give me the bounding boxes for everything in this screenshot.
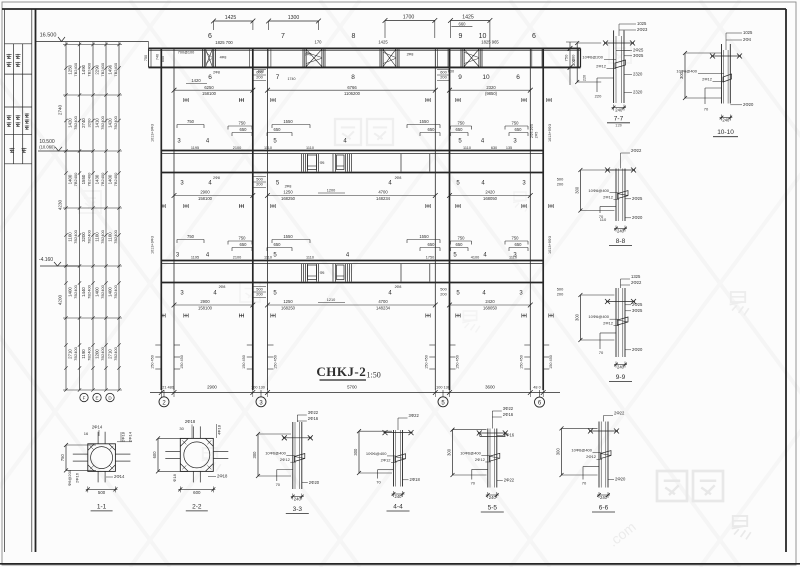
svg-text:168250: 168250 xyxy=(281,196,296,201)
svg-text:750: 750 xyxy=(60,454,65,462)
svg-text:4Φ8: 4Φ8 xyxy=(220,56,227,60)
svg-text:2Φ12: 2Φ12 xyxy=(475,457,486,462)
level mark -4.160 xyxy=(39,257,79,266)
svg-text:10Φ6@200: 10Φ6@200 xyxy=(582,55,603,60)
svg-text:7B2400: 7B2400 xyxy=(87,346,92,361)
svg-text:1400: 1400 xyxy=(95,287,100,297)
svg-text:48 0: 48 0 xyxy=(533,386,540,390)
svg-text:2Φ22: 2Φ22 xyxy=(631,148,642,153)
svg-text:1013+9Φ3: 1013+9Φ3 xyxy=(151,124,155,142)
svg-text:2Φ12: 2Φ12 xyxy=(702,77,713,82)
svg-text:2Φ20: 2Φ20 xyxy=(309,480,320,485)
svg-text:650: 650 xyxy=(515,127,523,132)
svg-text:158100: 158100 xyxy=(198,305,213,310)
section detail 9-9 xyxy=(574,274,643,382)
svg-text:1425: 1425 xyxy=(225,15,237,21)
svg-text:4100: 4100 xyxy=(471,256,479,260)
svg-text:148234: 148234 xyxy=(376,305,391,310)
svg-text:650: 650 xyxy=(428,242,436,247)
roof beam right overhang dimension xyxy=(563,42,586,85)
svg-text:1825 965: 1825 965 xyxy=(481,40,499,45)
svg-text:4230: 4230 xyxy=(58,199,63,210)
svg-text:150 450: 150 450 xyxy=(242,355,246,369)
section detail 5-5 xyxy=(447,406,515,512)
svg-text:168050: 168050 xyxy=(483,196,498,201)
svg-text:1400: 1400 xyxy=(68,174,73,184)
svg-text:2Φ18: 2Φ18 xyxy=(217,474,228,479)
svg-text:1025: 1025 xyxy=(637,21,647,26)
svg-text:10Φ6@400: 10Φ6@400 xyxy=(588,314,609,319)
svg-text:4200: 4200 xyxy=(58,294,63,305)
svg-text:9: 9 xyxy=(458,74,462,81)
svg-text:150 450: 150 450 xyxy=(549,355,553,369)
section detail 4-4 xyxy=(353,413,420,511)
svg-text:1195: 1195 xyxy=(191,146,199,150)
svg-text:5-5: 5-5 xyxy=(488,505,498,512)
svg-text:1:20: 1:20 xyxy=(615,124,621,128)
svg-text:7B2400: 7B2400 xyxy=(113,172,118,187)
grid bubble 5 xyxy=(438,390,448,407)
svg-text:1210: 1210 xyxy=(327,298,335,302)
top sub dimension texts xyxy=(215,40,499,46)
story3 column steel label C3 xyxy=(440,287,447,297)
svg-text:3Φ22: 3Φ22 xyxy=(409,413,420,418)
svg-text:7-7: 7-7 xyxy=(614,116,624,123)
svg-text:240: 240 xyxy=(489,495,497,500)
svg-text:750: 750 xyxy=(144,55,148,61)
svg-text:150 450: 150 450 xyxy=(424,355,428,369)
svg-text:200: 200 xyxy=(440,292,447,297)
svg-text:650: 650 xyxy=(456,242,464,247)
top grid numbers 6 7 8 9 10 6 xyxy=(208,33,536,48)
svg-text:2Φ23: 2Φ23 xyxy=(637,27,648,32)
svg-text:7B2400: 7B2400 xyxy=(100,346,105,361)
svg-text:100 130: 100 130 xyxy=(436,386,450,390)
svg-text:240: 240 xyxy=(395,494,403,499)
story1 stirrup dimensions xyxy=(177,119,528,136)
svg-text:10Φ6@400: 10Φ6@400 xyxy=(571,448,592,453)
story3 column base ties xyxy=(150,345,553,369)
svg-text:1420: 1420 xyxy=(108,118,113,128)
signature strip text 建筑 结构 给排水 xyxy=(7,113,30,129)
section detail 7-7 xyxy=(571,21,648,128)
svg-text:7B2400: 7B2400 xyxy=(87,172,92,187)
svg-text:7B2400: 7B2400 xyxy=(87,284,92,299)
svg-text:110: 110 xyxy=(600,217,607,222)
svg-text:6: 6 xyxy=(532,33,536,40)
roof beam splice detail b xyxy=(303,49,325,66)
svg-text:1110: 1110 xyxy=(463,146,471,150)
svg-text:150 450: 150 450 xyxy=(456,355,460,369)
svg-text:300: 300 xyxy=(679,71,684,79)
svg-text:200: 200 xyxy=(557,292,564,297)
svg-text:10Φ6@400: 10Φ6@400 xyxy=(366,451,387,456)
svg-text:70: 70 xyxy=(376,480,381,485)
svg-text:650: 650 xyxy=(274,242,282,247)
svg-text:70: 70 xyxy=(276,482,281,487)
svg-text:2420: 2420 xyxy=(485,190,495,195)
svg-text:CHKJ-2: CHKJ-2 xyxy=(316,364,366,379)
svg-text:Φ5: Φ5 xyxy=(320,271,325,275)
svg-text:2900: 2900 xyxy=(200,190,210,195)
svg-text:7B2400: 7B2400 xyxy=(113,346,118,361)
svg-text:1550: 1550 xyxy=(419,234,429,239)
svg-text:1550: 1550 xyxy=(283,234,293,239)
svg-text:6: 6 xyxy=(208,33,212,40)
section detail 6-6 xyxy=(556,411,626,513)
story1 side bar note left xyxy=(151,124,155,142)
svg-text:650: 650 xyxy=(240,127,248,132)
svg-text:1110: 1110 xyxy=(306,256,314,260)
svg-text:2Φ12: 2Φ12 xyxy=(603,321,614,326)
svg-text:-4.160: -4.160 xyxy=(39,257,53,263)
svg-text:Φ5: Φ5 xyxy=(320,161,325,165)
svg-text:650: 650 xyxy=(240,242,248,247)
svg-text:1200: 1200 xyxy=(95,349,100,359)
svg-text:2Φ8: 2Φ8 xyxy=(395,285,402,289)
svg-text:1496: 1496 xyxy=(108,64,113,74)
svg-text:135: 135 xyxy=(506,146,512,150)
svg-text:Φ6@200: Φ6@200 xyxy=(67,469,72,486)
svg-text:1013+9Φ3: 1013+9Φ3 xyxy=(151,236,155,254)
signature strip text 电气 暖通 xyxy=(6,54,20,67)
roof beam splice detail d xyxy=(461,49,482,66)
svg-text:2Φ25: 2Φ25 xyxy=(633,48,644,53)
svg-text:1490: 1490 xyxy=(81,64,86,74)
svg-text:8-8: 8-8 xyxy=(616,238,626,245)
svg-text:2Φ16: 2Φ16 xyxy=(504,433,515,438)
svg-text:3Φ25: 3Φ25 xyxy=(632,308,643,313)
svg-text:7B2400: 7B2400 xyxy=(113,62,118,77)
svg-text:740: 740 xyxy=(156,54,160,60)
svg-text:7B2400: 7B2400 xyxy=(87,229,92,244)
svg-text:1700: 1700 xyxy=(403,15,415,21)
svg-text:5700: 5700 xyxy=(347,385,357,390)
svg-text:2Φ12: 2Φ12 xyxy=(280,457,291,462)
story1 side bar note right xyxy=(530,124,552,142)
svg-text:2Φ18: 2Φ18 xyxy=(410,477,421,482)
svg-text:2710: 2710 xyxy=(68,349,73,359)
svg-text:1250: 1250 xyxy=(283,190,293,195)
svg-text:2Φ8: 2Φ8 xyxy=(305,53,312,57)
svg-text:10Φ6@400: 10Φ6@400 xyxy=(460,450,481,455)
svg-text:2Φ20: 2Φ20 xyxy=(615,477,626,482)
svg-text:300: 300 xyxy=(574,313,579,321)
svg-text:3200: 3200 xyxy=(81,232,86,242)
story1 bay dimensions xyxy=(172,78,533,96)
roof beam small labels xyxy=(178,51,454,74)
svg-text:6: 6 xyxy=(208,74,212,81)
svg-text:16.500: 16.500 xyxy=(40,33,57,39)
svg-text:4Φ18: 4Φ18 xyxy=(217,424,222,435)
svg-text:7: 7 xyxy=(276,74,280,81)
svg-text:150 450: 150 450 xyxy=(274,355,278,369)
svg-text:Φ18: Φ18 xyxy=(172,473,177,481)
svg-text:70: 70 xyxy=(471,481,476,486)
svg-text:600: 600 xyxy=(193,490,201,495)
svg-text:8: 8 xyxy=(351,33,355,40)
svg-text:7B2400: 7B2400 xyxy=(73,62,78,77)
svg-text:1410: 1410 xyxy=(95,118,100,128)
story2 side bar note left xyxy=(151,236,155,254)
svg-text:7B2400: 7B2400 xyxy=(73,229,78,244)
svg-text:1110: 1110 xyxy=(306,146,314,150)
svg-text:1420: 1420 xyxy=(68,118,73,128)
svg-text:1190: 1190 xyxy=(81,349,86,359)
svg-text:1740: 1740 xyxy=(288,77,296,81)
story1 stirrup symbols xyxy=(184,98,551,102)
svg-text:2Φ20: 2Φ20 xyxy=(743,102,754,107)
svg-text:1550: 1550 xyxy=(283,119,293,124)
svg-text:300: 300 xyxy=(252,451,257,459)
svg-text:1100: 1100 xyxy=(68,232,73,242)
svg-text:7B2400: 7B2400 xyxy=(73,284,78,299)
svg-text:1550: 1550 xyxy=(419,119,429,124)
svg-text:1025: 1025 xyxy=(743,30,753,35)
svg-text:7B2400: 7B2400 xyxy=(100,62,105,77)
svg-text:2Φ14: 2Φ14 xyxy=(92,425,103,430)
svg-text:630: 630 xyxy=(491,146,497,150)
svg-text:7B2400: 7B2400 xyxy=(100,229,105,244)
svg-text:660: 660 xyxy=(459,21,467,26)
svg-text:1110: 1110 xyxy=(509,256,517,260)
svg-text:1013+9Φ3: 1013+9Φ3 xyxy=(548,236,552,254)
column grid line 3 xyxy=(253,48,268,390)
signature strip text 会签 xyxy=(10,148,27,153)
story3 column steel label right xyxy=(557,287,564,297)
svg-text:F: F xyxy=(83,396,86,401)
svg-text:1430: 1430 xyxy=(95,174,100,184)
svg-text:1420: 1420 xyxy=(191,78,201,83)
svg-text:1440: 1440 xyxy=(81,287,86,297)
svg-text:7: 7 xyxy=(281,33,285,40)
svg-text:70: 70 xyxy=(582,481,587,486)
section detail 8-8 xyxy=(574,148,643,246)
svg-text:1400: 1400 xyxy=(68,287,73,297)
svg-text:9: 9 xyxy=(459,33,463,40)
svg-text:750: 750 xyxy=(458,236,466,241)
svg-text:10-10: 10-10 xyxy=(717,129,734,136)
left dimension stack numbers xyxy=(58,62,119,361)
svg-text:1750: 1750 xyxy=(426,256,434,260)
svg-text:10Φ6@400: 10Φ6@400 xyxy=(588,188,609,193)
svg-text:170: 170 xyxy=(315,40,323,45)
svg-text:2Φ12: 2Φ12 xyxy=(603,194,614,199)
svg-text:600: 600 xyxy=(161,56,165,62)
story1 column steel label C3 xyxy=(437,70,449,81)
column grid line 2 xyxy=(161,48,174,390)
svg-text:1106200: 1106200 xyxy=(344,91,361,96)
story1 beam labels xyxy=(177,139,517,145)
svg-text:1100: 1100 xyxy=(95,232,100,242)
column grid line 6 xyxy=(530,48,543,390)
drawing title CHKJ-2 1:50 xyxy=(316,364,380,380)
svg-text:1013+9Φ3: 1013+9Φ3 xyxy=(548,124,552,142)
grid bubble 3 xyxy=(256,390,266,407)
svg-text:2Φ8: 2Φ8 xyxy=(407,53,414,57)
svg-text:240: 240 xyxy=(615,108,623,113)
svg-text:240: 240 xyxy=(722,118,730,123)
svg-text:2Φ14: 2Φ14 xyxy=(128,431,133,442)
svg-text:1110: 1110 xyxy=(264,146,272,150)
left dimension stack lines xyxy=(63,42,122,392)
story1 tiny tick numbers xyxy=(191,146,512,150)
svg-text:7B2400: 7B2400 xyxy=(73,172,78,187)
top dimension line 1425-1300 xyxy=(211,15,492,39)
svg-text:150 450: 150 450 xyxy=(150,355,154,369)
svg-text:300: 300 xyxy=(571,58,576,66)
svg-text:2Φ12: 2Φ12 xyxy=(596,64,607,69)
svg-text:100 130: 100 130 xyxy=(251,386,265,390)
svg-text:1195: 1195 xyxy=(191,256,199,260)
svg-text:2Φ5 2Φ5: 2Φ5 2Φ5 xyxy=(530,124,534,138)
signature strip grid xyxy=(5,9,32,552)
story3 stirrup symbols xyxy=(161,314,553,318)
svg-text:4-4: 4-4 xyxy=(393,504,403,511)
svg-text:3Φ25: 3Φ25 xyxy=(633,53,644,58)
svg-text:2Φ22: 2Φ22 xyxy=(614,411,625,416)
story2 beam labels upper xyxy=(180,176,526,189)
svg-text:3Φ22: 3Φ22 xyxy=(308,410,319,415)
svg-text:4700: 4700 xyxy=(378,190,388,195)
svg-text:16: 16 xyxy=(84,431,89,436)
svg-text:1425: 1425 xyxy=(462,15,474,21)
svg-text:(10.060): (10.060) xyxy=(39,145,55,150)
svg-text:240: 240 xyxy=(600,495,608,500)
svg-text:2900: 2900 xyxy=(207,385,217,390)
svg-text:750: 750 xyxy=(239,121,247,126)
story2 tiny tick numbers xyxy=(191,256,517,260)
svg-text:6: 6 xyxy=(516,74,520,81)
svg-text:650: 650 xyxy=(428,127,436,132)
svg-text:158100: 158100 xyxy=(202,91,217,96)
svg-text:2Φ14: 2Φ14 xyxy=(114,474,125,479)
svg-text:750: 750 xyxy=(187,119,195,124)
svg-text:2710: 2710 xyxy=(108,349,113,359)
svg-text:3Φ22: 3Φ22 xyxy=(503,406,514,411)
left stack grid bubbles xyxy=(80,393,114,401)
svg-text:2Φ12: 2Φ12 xyxy=(381,457,392,462)
svg-text:2Φ20: 2Φ20 xyxy=(632,347,643,352)
svg-text:1550: 1550 xyxy=(81,174,86,184)
svg-text:6250: 6250 xyxy=(204,85,214,90)
column grid line 5 xyxy=(435,48,449,390)
svg-text:2Φ18: 2Φ18 xyxy=(185,419,196,424)
svg-text:240: 240 xyxy=(617,365,625,370)
svg-text:3-3: 3-3 xyxy=(293,506,303,513)
story2 beam labels lower xyxy=(176,253,518,259)
svg-text:2Φ8: 2Φ8 xyxy=(285,185,292,189)
svg-text:2Φ8: 2Φ8 xyxy=(213,71,220,75)
svg-text:2Φ16: 2Φ16 xyxy=(503,412,514,417)
svg-text:240: 240 xyxy=(617,229,625,234)
svg-text:6766: 6766 xyxy=(347,85,357,90)
svg-text:168250: 168250 xyxy=(281,305,296,310)
svg-text:220: 220 xyxy=(583,75,587,81)
svg-text:2100: 2100 xyxy=(233,146,241,150)
svg-text:1-1: 1-1 xyxy=(97,503,107,510)
column section detail 1-1 xyxy=(60,425,133,511)
svg-text:1200: 1200 xyxy=(327,189,335,193)
svg-text:1825 700: 1825 700 xyxy=(215,40,233,45)
svg-text:2Φ8: 2Φ8 xyxy=(395,176,402,180)
svg-text:1425: 1425 xyxy=(378,40,388,45)
svg-text:1300: 1300 xyxy=(288,15,300,21)
svg-text:7B2400: 7B2400 xyxy=(113,115,118,130)
svg-text:2Φ16: 2Φ16 xyxy=(75,472,80,483)
svg-text:6-6: 6-6 xyxy=(599,505,609,512)
foundation dimension line xyxy=(150,385,560,397)
svg-text:1400: 1400 xyxy=(108,287,113,297)
svg-text:200: 200 xyxy=(557,182,564,187)
svg-text:2-2: 2-2 xyxy=(192,503,202,510)
floor beam level 2 xyxy=(161,151,543,173)
story2 bay dimensions xyxy=(172,189,533,201)
svg-text:1325: 1325 xyxy=(631,274,641,279)
svg-text:1100: 1100 xyxy=(108,232,113,242)
svg-text:2420: 2420 xyxy=(485,299,495,304)
svg-text:148234: 148234 xyxy=(376,196,391,201)
svg-text:2Φ4: 2Φ4 xyxy=(743,37,752,42)
story2 stirrup dimensions xyxy=(177,234,528,251)
svg-text:10Φ6@400: 10Φ6@400 xyxy=(265,451,286,456)
svg-text:2Φ12: 2Φ12 xyxy=(586,454,597,459)
svg-text:2740: 2740 xyxy=(81,118,86,128)
svg-text:8: 8 xyxy=(351,74,355,81)
level mark 10.500 xyxy=(38,139,93,151)
svg-text:30: 30 xyxy=(179,426,184,431)
svg-text:2290: 2290 xyxy=(95,64,100,74)
story2 column steel label right xyxy=(557,177,564,187)
svg-text:600: 600 xyxy=(152,451,157,459)
svg-text:300: 300 xyxy=(353,448,358,456)
svg-text:7B2400: 7B2400 xyxy=(113,229,118,244)
svg-text:2320: 2320 xyxy=(633,90,643,95)
svg-text:2Φ8: 2Φ8 xyxy=(213,176,220,180)
svg-text:700@100: 700@100 xyxy=(178,51,195,55)
svg-text:500: 500 xyxy=(98,490,106,495)
svg-text:(9850): (9850) xyxy=(485,91,498,96)
story2 column steel label C2 xyxy=(254,177,267,188)
floor beam level 3 xyxy=(161,261,543,283)
svg-text:750: 750 xyxy=(187,234,195,239)
svg-text:650: 650 xyxy=(515,242,523,247)
section detail 3-3 xyxy=(252,410,320,514)
svg-text:2Φ5: 2Φ5 xyxy=(535,132,539,139)
svg-text:1250: 1250 xyxy=(68,64,73,74)
svg-text:E: E xyxy=(95,396,98,401)
story1 beam numbers xyxy=(208,71,520,82)
svg-text:168050: 168050 xyxy=(483,305,498,310)
svg-text:750: 750 xyxy=(512,236,520,241)
svg-text:2Φ16: 2Φ16 xyxy=(308,416,319,421)
svg-text:2Φ22: 2Φ22 xyxy=(504,478,515,483)
level mark 16.500 xyxy=(36,33,149,42)
story3 beam labels xyxy=(180,285,523,297)
story2 side bar note right xyxy=(548,236,552,254)
svg-text:3600: 3600 xyxy=(485,385,495,390)
svg-text:70: 70 xyxy=(599,350,604,355)
svg-text:2Φ25: 2Φ25 xyxy=(632,196,643,201)
svg-text:4700: 4700 xyxy=(378,299,388,304)
column section detail 2-2 xyxy=(152,419,228,511)
svg-text:220: 220 xyxy=(595,94,602,99)
svg-text:9-9: 9-9 xyxy=(616,374,626,381)
svg-text:2900: 2900 xyxy=(200,299,210,304)
roof beam left column notes xyxy=(144,42,165,67)
svg-text:7B2400: 7B2400 xyxy=(100,284,105,299)
svg-text:7B2400: 7B2400 xyxy=(100,115,105,130)
